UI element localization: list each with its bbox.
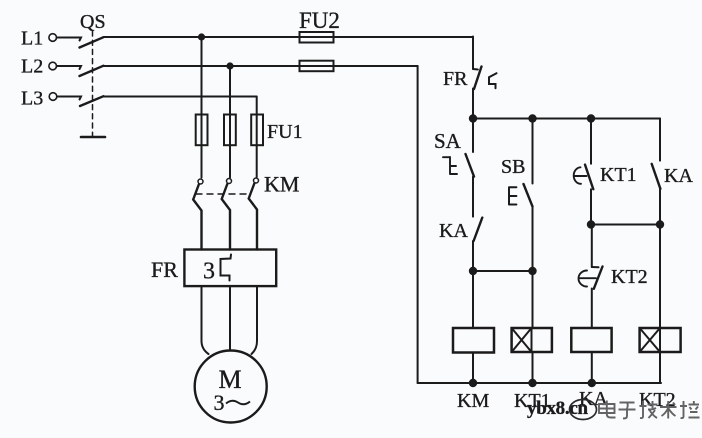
svg-text:KM: KM <box>264 172 299 197</box>
svg-text:3: 3 <box>214 390 225 415</box>
svg-text:KA: KA <box>664 165 693 187</box>
svg-text:FR: FR <box>151 257 178 282</box>
svg-text:KT1: KT1 <box>600 164 637 186</box>
svg-text:KM: KM <box>457 390 489 412</box>
svg-text:KT2: KT2 <box>611 266 648 288</box>
svg-text:KA: KA <box>439 220 468 242</box>
svg-text:FU1: FU1 <box>267 121 303 143</box>
svg-text:QS: QS <box>80 11 106 33</box>
svg-text:L1: L1 <box>21 28 43 50</box>
svg-text:L3: L3 <box>21 88 43 110</box>
svg-text:3: 3 <box>203 259 215 285</box>
svg-text:L2: L2 <box>21 56 43 78</box>
svg-text:SB: SB <box>501 156 525 178</box>
svg-text:FR: FR <box>443 68 468 90</box>
svg-text:FU2: FU2 <box>299 8 340 33</box>
svg-text:ybx8.cn: ybx8.cn <box>527 398 588 419</box>
svg-text:SA: SA <box>434 129 462 153</box>
